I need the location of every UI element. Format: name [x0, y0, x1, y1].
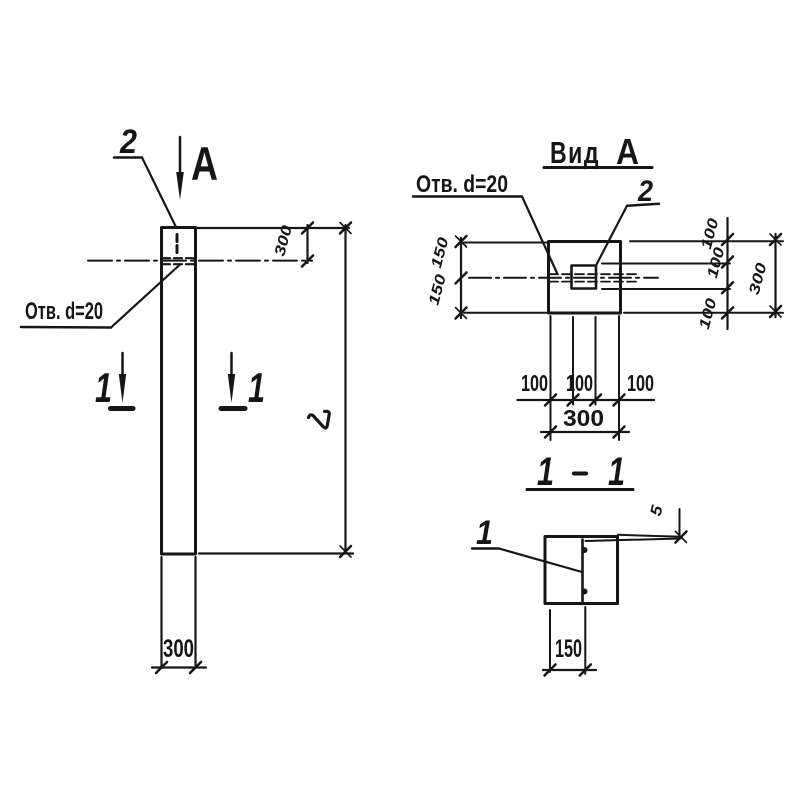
hidden hole lower edge dashed	[549, 281, 640, 283]
label 1 leader	[499, 549, 582, 573]
extension right hole top	[602, 263, 730, 265]
tick star top 2	[340, 223, 351, 234]
tick star	[456, 308, 467, 319]
svg-text:2: 2	[637, 175, 653, 208]
dim 5 extension vertical	[679, 509, 681, 538]
label 1 underline	[472, 547, 499, 549]
tick	[545, 427, 556, 438]
tick star	[676, 532, 687, 543]
hidden hole upper edge (dashed)	[162, 257, 195, 259]
tick	[722, 308, 733, 319]
view direction arrowhead	[176, 172, 184, 200]
extension right bottom	[624, 312, 783, 314]
bottom dimension line 100s	[518, 399, 655, 401]
svg-text:150: 150	[428, 235, 453, 270]
svg-text:300: 300	[163, 635, 194, 663]
label 2 leader	[596, 206, 627, 266]
extension below column left	[160, 557, 162, 666]
svg-text:100: 100	[698, 216, 723, 251]
tick	[302, 256, 313, 267]
tick	[302, 223, 313, 234]
title underline	[527, 488, 633, 491]
tick	[568, 395, 579, 406]
svg-text:А: А	[616, 131, 639, 172]
bottom dimension line 300	[541, 431, 629, 433]
svg-text:1: 1	[608, 450, 625, 494]
tick	[456, 273, 467, 284]
dim 5 line upper	[618, 535, 682, 537]
column body outline	[162, 228, 196, 555]
svg-text:150: 150	[425, 272, 450, 307]
extension below: square left	[550, 316, 552, 440]
extension below mesh	[584, 607, 586, 674]
extension right top	[630, 240, 783, 242]
dimension 300 (top) line	[306, 225, 308, 263]
column cross-section square	[549, 242, 621, 314]
svg-text:Отв. d=20: Отв. d=20	[416, 171, 508, 198]
view direction arrow A shaft	[179, 137, 182, 190]
extension below left	[549, 610, 551, 672]
section mark 1 left: plane bar	[111, 406, 134, 411]
svg-text:100: 100	[566, 370, 593, 396]
label 2 leader	[142, 158, 176, 228]
tick star 2	[770, 234, 781, 245]
extension left bottom	[464, 312, 548, 314]
mesh line	[581, 540, 584, 605]
tick	[545, 395, 556, 406]
svg-text:300: 300	[746, 260, 771, 296]
svg-text:1: 1	[95, 364, 112, 411]
svg-text:1: 1	[476, 514, 493, 552]
tick	[156, 662, 167, 673]
tick	[722, 257, 733, 268]
hole recess square	[572, 266, 597, 289]
rebar dot bottom	[582, 589, 588, 595]
svg-text:Вид: Вид	[550, 135, 600, 170]
extension left top	[464, 242, 549, 244]
dim 5 line lower	[586, 539, 681, 542]
dimension 300 (bottom) line	[152, 666, 206, 668]
rebar dot top	[582, 547, 588, 553]
tick	[722, 234, 733, 245]
hidden hole axis (dashed vertical)	[176, 235, 179, 254]
svg-text:5: 5	[648, 503, 667, 518]
leader to hole	[111, 265, 180, 328]
section mark 1 left: arrow shaft	[121, 353, 124, 385]
tick	[722, 282, 733, 293]
tick star bottom 2	[340, 546, 351, 557]
svg-text:300: 300	[563, 405, 604, 431]
label underline	[21, 326, 111, 329]
extension below: hole right	[595, 317, 597, 405]
overall length dimension line	[344, 225, 346, 552]
section mark 1 left: arrowhead	[119, 374, 126, 403]
svg-text:100: 100	[696, 296, 721, 331]
length letter l (script)	[309, 411, 330, 428]
bottom extension line	[199, 552, 353, 554]
svg-text:100: 100	[627, 370, 654, 396]
dimension line 150	[543, 669, 596, 671]
extension right hole bottom	[602, 288, 730, 290]
tick star	[770, 234, 781, 245]
right dimension line 100s	[726, 218, 728, 329]
tick star 2	[456, 308, 467, 319]
left dimension line 150/150	[460, 238, 462, 318]
section mark 1 right: plane bar	[221, 406, 245, 411]
svg-text:2: 2	[119, 123, 137, 161]
tick star 2	[456, 236, 467, 247]
tick star 2	[770, 306, 781, 317]
section square	[545, 537, 618, 604]
tick	[190, 662, 201, 673]
extension below column right	[194, 557, 196, 665]
title underline	[544, 166, 652, 169]
tick star	[456, 236, 467, 247]
svg-text:1: 1	[248, 364, 265, 411]
label 2 underline	[114, 156, 142, 159]
svg-text:A: A	[191, 137, 218, 190]
label 2 underline	[627, 204, 659, 206]
svg-text:150: 150	[555, 635, 582, 663]
hidden hole upper edge dashed	[549, 273, 640, 275]
tick star top	[340, 223, 351, 234]
tick star 2	[676, 532, 687, 543]
top extension line	[197, 227, 349, 229]
centerline (dash-dot)	[469, 277, 658, 279]
label underline	[413, 195, 522, 198]
tick	[545, 665, 556, 676]
svg-text:Отв. d=20: Отв. d=20	[25, 298, 103, 325]
title dash	[574, 472, 586, 476]
extension below: square right	[618, 316, 620, 440]
tick	[580, 665, 591, 676]
svg-text:100: 100	[521, 370, 548, 396]
tick star bottom	[340, 546, 351, 557]
section mark 1 right: arrowhead	[228, 374, 235, 403]
tick	[614, 395, 625, 406]
extension below: hole left	[572, 317, 574, 405]
centerline of hole (dash-dot)	[88, 260, 312, 262]
tick	[614, 427, 625, 438]
tick	[590, 395, 601, 406]
tick star	[770, 306, 781, 317]
right dimension line 300	[774, 234, 776, 317]
section mark 1 right: arrow shaft	[230, 353, 233, 385]
leader to hole	[522, 197, 557, 274]
hidden hole lower edge (dashed)	[162, 263, 195, 265]
svg-text:1: 1	[537, 450, 554, 494]
